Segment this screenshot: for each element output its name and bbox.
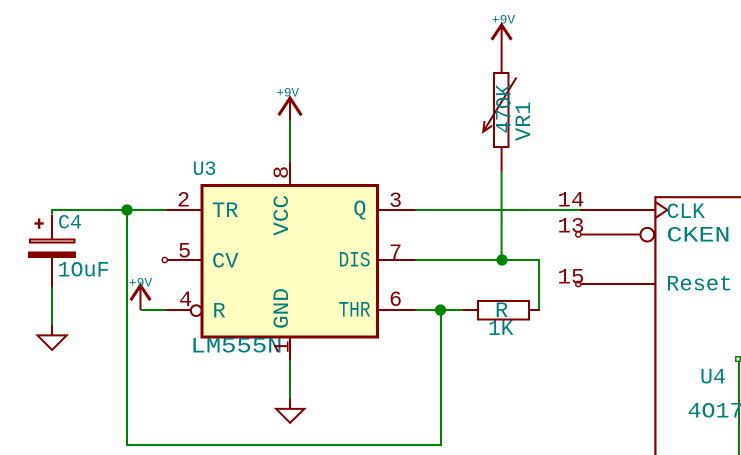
svg-text:14: 14 [558,189,585,214]
svg-text:R: R [213,300,226,325]
svg-text:+9V: +9V [129,276,153,291]
svg-text:U4: U4 [700,366,726,391]
svg-text:1K: 1K [488,317,514,342]
svg-text:CLK: CLK [667,200,706,225]
svg-text:2: 2 [177,189,190,214]
svg-text:Reset: Reset [666,273,732,298]
svg-text:4O17: 4O17 [688,400,741,425]
svg-text:6: 6 [389,288,402,313]
svg-text:7: 7 [389,241,402,266]
svg-text:CV: CV [212,250,239,275]
svg-text:Q: Q [353,197,366,222]
svg-text:VR1: VR1 [512,101,537,141]
svg-text:4: 4 [179,288,192,313]
svg-text:15: 15 [558,266,585,291]
svg-text:VCC: VCC [270,195,295,236]
svg-text:5: 5 [178,240,191,265]
svg-text:1OuF: 1OuF [58,259,110,284]
svg-text:DIS: DIS [339,249,371,274]
svg-text:LM555N: LM555N [191,335,283,360]
svg-text:CKEN: CKEN [667,224,731,249]
svg-text:THR: THR [339,299,371,324]
svg-text:+9V: +9V [492,13,516,28]
svg-text:+9V: +9V [277,86,300,101]
svg-text:U3: U3 [193,159,217,182]
svg-text:3: 3 [389,189,402,214]
svg-text:GND: GND [270,288,295,329]
svg-text:8: 8 [270,166,295,179]
svg-text:TR: TR [212,199,238,224]
svg-text:C4: C4 [58,213,82,236]
svg-text:1: 1 [271,340,296,353]
svg-text:13: 13 [558,215,585,240]
